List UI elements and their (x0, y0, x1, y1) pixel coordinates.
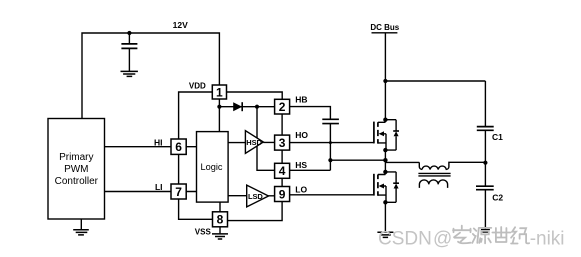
svg-text:CSDN: CSDN (378, 228, 432, 249)
svg-text:2: 2 (279, 100, 286, 114)
svg-text:1: 1 (216, 85, 223, 99)
svg-text:7: 7 (175, 185, 182, 199)
svg-text:HSD: HSD (246, 138, 262, 147)
svg-text:Logic: Logic (201, 162, 223, 172)
svg-text:Controller: Controller (55, 176, 99, 187)
svg-text:HS: HS (295, 160, 307, 170)
svg-text:3: 3 (279, 136, 286, 150)
svg-text:6: 6 (175, 140, 182, 154)
svg-text:HB: HB (295, 94, 307, 104)
svg-text:HO: HO (295, 130, 308, 140)
svg-text:VDD: VDD (189, 81, 206, 90)
svg-text:9: 9 (279, 187, 286, 201)
svg-text:C2: C2 (492, 192, 503, 202)
svg-text:12V: 12V (173, 20, 188, 30)
svg-text:@: @ (433, 228, 452, 249)
svg-text:Primary: Primary (59, 152, 93, 163)
svg-text:DC Bus: DC Bus (370, 23, 399, 32)
svg-text:8: 8 (217, 213, 224, 227)
svg-text:C1: C1 (492, 132, 503, 142)
svg-text:HI: HI (154, 137, 163, 147)
svg-text:PWM: PWM (64, 164, 88, 175)
svg-text:LO: LO (295, 184, 307, 194)
svg-text:LSD: LSD (248, 192, 263, 201)
svg-text:4: 4 (279, 164, 286, 178)
svg-text:-niki: -niki (530, 228, 565, 249)
svg-text:LI: LI (155, 182, 163, 192)
svg-text:VSS: VSS (195, 228, 212, 237)
